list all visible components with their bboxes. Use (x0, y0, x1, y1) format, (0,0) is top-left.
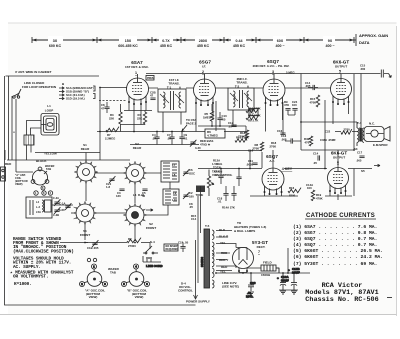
transformer T5 lead labels (219, 228, 229, 274)
tube V3 6SQ7 label (253, 59, 290, 74)
interlock box (164, 244, 179, 251)
wafer lug dots S2 rear (124, 162, 146, 184)
tube V6 6K6-GT (328, 168, 349, 195)
switch S4 on volume control (143, 240, 193, 293)
svg-text:1MEG: 1MEG (203, 116, 211, 120)
note to heaters (234, 221, 266, 233)
svg-text:5 MEG: 5 MEG (286, 71, 295, 75)
capacitor C8 47 (101, 102, 110, 113)
wire color labels (5, 152, 57, 167)
trimmer C2 (183, 191, 194, 199)
trimmer C2B (53, 207, 60, 217)
svg-text:BLK: BLK (219, 228, 226, 232)
wire plate feed vertical x361 (360, 74, 362, 128)
switch wafer S1 front (73, 201, 97, 225)
svg-text:455 KC: 455 KC (233, 44, 246, 48)
coil A bottom view (80, 264, 108, 287)
svg-text:(3) 6SQ7 . . . . . . . 0.7 M: (3) 6SQ7 . . . . . . . 0.7 MA. (293, 236, 377, 242)
tube V4 6SQ7 (262, 168, 284, 195)
stray lugs above coil A (87, 258, 96, 261)
svg-text:VIEW): VIEW) (15, 182, 23, 186)
switch wafer S1 rear label (81, 143, 90, 151)
wire right mid rail (301, 149, 354, 151)
svg-text:LOOP: LOOP (45, 109, 54, 113)
wire coil box link (169, 182, 171, 189)
wire S1 front down (84, 222, 86, 240)
svg-text:(2) 6SG7 . . . . . . . 9.8 M: (2) 6SG7 . . . . . . . 9.8 MA. (293, 230, 377, 236)
svg-text:280X: 280X (199, 39, 208, 43)
coil box L7 L8 (161, 161, 179, 182)
note wafer tab upper (44, 164, 54, 174)
wire key lead (272, 150, 274, 168)
svg-text:22K: 22K (109, 117, 114, 121)
wire v x262 (261, 152, 263, 168)
wire 5Y3 cathode to field (247, 268, 279, 273)
svg-text:CONTROL: CONTROL (178, 289, 193, 293)
svg-text:30MF: 30MF (281, 279, 289, 283)
cap C36A (320, 138, 336, 142)
svg-text:1.0: 1.0 (250, 112, 254, 116)
svg-text:2.2MEG: 2.2MEG (105, 137, 115, 141)
resistor R16 8200 (288, 186, 301, 198)
svg-text:600 KC: 600 KC (49, 44, 62, 48)
svg-text:.05: .05 (152, 137, 156, 141)
wire black lead (7, 159, 130, 161)
wire volume section left edge (200, 186, 202, 233)
coil box1 inner col2 (172, 164, 177, 179)
resistor R10 zigzag (235, 139, 247, 142)
svg-text:130: 130 (116, 194, 121, 198)
wire 5Y3 leads (239, 272, 247, 275)
svg-text:.05: .05 (228, 125, 232, 129)
tube V2 6SG7 (194, 74, 216, 106)
wire top B+ rail (146, 70, 391, 78)
svg-text:L5A: L5A (36, 210, 41, 214)
approx gain data note (345, 33, 388, 46)
label R15 C14 (191, 214, 197, 221)
svg-text:9X: 9X (328, 39, 333, 43)
coil A bottom view label (85, 288, 106, 299)
svg-text:47K: 47K (284, 103, 289, 107)
svg-text:.005: .005 (356, 159, 362, 163)
wire wafer row links (94, 173, 126, 213)
wire mid rail (130, 144, 199, 146)
wire tube5 bottom leads (333, 103, 349, 124)
wire tube1 bottom leads (121, 103, 153, 132)
switch wafer S2 front (123, 203, 147, 227)
svg-text:(7) 5Y3GT . . . . . . . 69 MA: (7) 5Y3GT . . . . . . . 69 MA. (293, 261, 377, 267)
svg-text:0.44: 0.44 (236, 39, 243, 43)
svg-text:8200: 8200 (289, 194, 296, 198)
arrow phono (374, 164, 380, 166)
svg-text:470Ω ★: 470Ω ★ (200, 143, 211, 147)
resistor R19 470K (306, 183, 323, 201)
coil box2 inner col2 (173, 192, 177, 201)
svg-text:& DIAL LAMPS: & DIAL LAMPS (234, 229, 255, 233)
capacitor C2A padder (178, 241, 189, 253)
svg-text:1: 1 (135, 71, 137, 75)
svg-text:.05: .05 (189, 205, 193, 209)
svg-text:1-8: 1-8 (106, 185, 110, 189)
svg-text:C-1A: C-1A (59, 202, 66, 206)
transformer T5 power (200, 229, 214, 288)
svg-text:RED-Y: RED-Y (219, 258, 228, 262)
wire transformer secondary leads (216, 231, 247, 271)
wire inverter rails (198, 104, 283, 140)
svg-text:+: + (277, 276, 279, 280)
transformer T4 output (357, 122, 364, 146)
svg-text:LINE CORD: LINE CORD (146, 264, 163, 268)
svg-text:600-455 KC: 600-455 KC (118, 44, 138, 48)
wire wafer3 to trimmer (71, 212, 74, 214)
svg-text:3-30: 3-30 (195, 146, 201, 150)
legend range switch positions (59, 82, 95, 101)
capacitor C18B (288, 267, 301, 290)
capacitor C13 (281, 134, 301, 144)
svg-text:FOR LOOP OPERATION: FOR LOOP OPERATION (22, 85, 56, 89)
wire lower pins rail (250, 195, 352, 197)
resistor R10 270K (236, 136, 249, 140)
resistor R2 27000 (127, 237, 141, 248)
coil L6 R24 (133, 193, 145, 197)
transformer T2 2nd IF label (235, 77, 250, 89)
variable capacitor C1B (87, 240, 99, 250)
svg-text:R14A 27K: R14A 27K (222, 206, 235, 210)
svg-text:.05: .05 (215, 173, 219, 177)
svg-text:TAB: TAB (110, 271, 117, 275)
tube V1 6SA7 (127, 74, 149, 105)
wafer lug dots S1 rear (75, 161, 97, 183)
resistor R3 22K (109, 104, 122, 132)
resistor R7 2.2MEG (105, 127, 119, 141)
coil box L9 L10 (163, 189, 179, 205)
svg-text:(1) 6SA7 . . . . . . . 7.6 M: (1) 6SA7 . . . . . . . 7.6 MA. (293, 224, 377, 230)
svg-text:C17: C17 (357, 151, 363, 155)
note to s2a (186, 118, 196, 126)
svg-text:.01: .01 (184, 137, 188, 141)
svg-text:PAGE 2: PAGE 2 (186, 122, 196, 126)
capacitor C15 label (360, 64, 366, 72)
svg-text:R2: R2 (128, 237, 132, 241)
capacitor C12 (228, 121, 237, 129)
wire gang link dashed (99, 100, 127, 102)
svg-text:RECT.: RECT. (257, 245, 266, 249)
svg-text:270K: 270K (270, 144, 277, 148)
transformer T1 1st IF label (167, 78, 182, 90)
wire T2 bottom leads (233, 110, 249, 126)
resistor R8 270K (253, 142, 264, 151)
link switch contacts (13, 93, 20, 98)
svg-text:C-2B: C-2B (53, 213, 59, 217)
coil B bottom view label (127, 288, 148, 299)
detail sub-box (45, 200, 52, 212)
trimmer C2A (53, 196, 60, 206)
resistor box R6 (205, 129, 225, 138)
capacitor C4 (152, 132, 160, 145)
svg-text:(5) 6K6GT . . . . . . . 26.5 M: (5) 6K6GT . . . . . . . 26.5 MA. (293, 248, 383, 254)
ant coil pin 6 (41, 186, 45, 190)
svg-text:I.F.: I.F. (202, 65, 206, 69)
resistor R4 22K (137, 111, 147, 125)
svg-text:2ND DET. A.V.C. - PH. INV.: 2ND DET. A.V.C. - PH. INV. (253, 64, 290, 68)
svg-text:100: 100 (307, 186, 312, 190)
trimmer C21 (106, 176, 115, 189)
resistor R17 2700 (335, 127, 357, 134)
capacitor C14b (305, 81, 318, 90)
wire tube6 down (337, 194, 339, 200)
svg-text:27000: 27000 (128, 244, 136, 248)
svg-text:L1: L1 (47, 104, 51, 108)
volume control R12A (196, 159, 237, 210)
svg-text:N.C.: N.C. (369, 122, 375, 126)
switch wafer S1 rear (74, 160, 98, 184)
svg-text:400 ~: 400 ~ (275, 44, 284, 48)
capacitor C9 (179, 132, 187, 145)
wire B+ bus (216, 272, 310, 274)
transformer T2 2nd IF (228, 88, 254, 110)
svg-text:3' ANT. WIRE IN CABINET: 3' ANT. WIRE IN CABINET (15, 70, 52, 74)
svg-text:L6: L6 (133, 193, 137, 197)
svg-text:180: 180 (189, 195, 194, 199)
svg-text:MFD.: MFD. (246, 295, 253, 299)
svg-text:T-5: T-5 (205, 224, 210, 228)
coil B bottom view (122, 264, 150, 287)
svg-text:REAR: REAR (133, 146, 142, 150)
svg-text:.05: .05 (313, 161, 317, 165)
capacitor C5 56 (142, 189, 148, 198)
wire antenna (5, 76, 99, 160)
wire T1 bottom leads (163, 112, 181, 132)
svg-text:60X: 60X (277, 39, 284, 43)
gain scale arrowheads (33, 39, 353, 41)
cathode currents table title (305, 213, 376, 219)
svg-text:.05: .05 (222, 118, 226, 122)
switch wafer S2 front label (146, 222, 156, 230)
svg-text:2700: 2700 (344, 127, 351, 131)
coil L2 box (24, 135, 34, 145)
svg-text:(6) 6K6GT . . . . . . . 24.2 M: (6) 6K6GT . . . . . . . 24.2 MA. (293, 254, 383, 260)
tube V5 6K6-GT label (333, 60, 350, 74)
svg-text:(MAX.CLOCKWISE POSITION): (MAX.CLOCKWISE POSITION) (13, 249, 74, 254)
capacitor C16 (277, 129, 286, 135)
capacitor C18A (277, 273, 290, 290)
svg-text:C14: C14 (191, 217, 197, 221)
wire field feed (252, 268, 279, 273)
note line cord (222, 281, 239, 289)
wire ground bus caps (279, 289, 298, 291)
arrow into coil box (146, 209, 153, 211)
wire tube6 bottom leads (330, 192, 346, 196)
svg-text:300: 300 (361, 67, 366, 71)
wire output top rail (301, 121, 357, 123)
svg-text:470K: 470K (316, 197, 323, 201)
wire v x250 (249, 150, 251, 168)
wire v tube2 cathode (215, 101, 217, 131)
svg-text:C14: C14 (313, 152, 319, 156)
capacitor C11 (246, 159, 258, 167)
wire wafer connectors (86, 153, 168, 242)
svg-text:L-3: L-3 (36, 205, 40, 209)
svg-text:400 ~: 400 ~ (325, 44, 334, 48)
svg-text:TAB: TAB (46, 167, 51, 171)
svg-text:C-2A: C-2A (53, 196, 59, 200)
svg-text:REQUIRED: REQUIRED (166, 248, 179, 251)
svg-text:E.M.SPKR: E.M.SPKR (373, 143, 388, 147)
svg-text:.01: .01 (218, 200, 222, 204)
wafer lug dots S2 front (124, 204, 146, 226)
ant coil bottom view (15, 167, 49, 186)
cap C22 (325, 130, 331, 134)
speaker (364, 127, 390, 142)
svg-text:C16: C16 (248, 149, 254, 153)
press terminal box (146, 76, 154, 81)
svg-text:470K: 470K (310, 101, 317, 105)
svg-text:455 KC: 455 KC (160, 44, 173, 48)
wire tube4 bottom leads (265, 193, 282, 196)
svg-text:A.F.: A.F. (269, 159, 275, 163)
svg-text:C36A .05MF: C36A .05MF (320, 138, 336, 142)
svg-text:OUTPUT: OUTPUT (333, 156, 346, 160)
capacitor C17 (356, 151, 365, 163)
switch S3 (354, 147, 358, 151)
svg-text:936560: 936560 (200, 257, 204, 267)
svg-text:20MF: 20MF (292, 271, 300, 275)
label S5 (361, 169, 365, 173)
label R8 2.7K (248, 119, 258, 123)
svg-text:OSC: OSC (189, 172, 195, 176)
box C25 (249, 109, 258, 116)
loop antenna L1 (41, 114, 59, 136)
wire v x354 (353, 74, 355, 150)
wire left col vertical (99, 88, 101, 161)
wire lower tube rail (198, 168, 372, 170)
switch wafer S2 rear (123, 161, 147, 185)
capacitor C24b (236, 169, 241, 187)
svg-text:5: 5 (339, 70, 341, 74)
svg-text:5-60: 5-60 (59, 208, 65, 212)
svg-text:1ST DET. & OSC.: 1ST DET. & OSC. (125, 65, 149, 69)
svg-text:OUTPUT: OUTPUT (335, 65, 348, 69)
wire S2 link vertical (134, 182, 136, 203)
capacitor C7 (167, 132, 175, 145)
svg-text:4 KEY: 4 KEY (282, 167, 293, 171)
svg-text:FRONT: FRONT (146, 226, 156, 230)
arrow to page (182, 125, 187, 131)
labels under tube3 (284, 100, 298, 115)
tube V7 5Y3-GT label (252, 240, 268, 254)
stray dash (387, 297, 392, 299)
svg-text:CATHODE CURRENTS: CATHODE CURRENTS (306, 213, 375, 219)
wire tube3 bottom leads (266, 104, 283, 132)
note link closed (17, 81, 56, 97)
wire S1 link vertical (85, 181, 87, 201)
svg-text:0.7X: 0.7X (162, 39, 170, 43)
wire AVC bus (97, 131, 246, 133)
svg-text:K=1000.: K=1000. (14, 282, 32, 287)
trimmer C6 (183, 168, 195, 176)
wire plate row segments (100, 87, 331, 90)
svg-text:C1B: C1B (87, 246, 93, 250)
capacitor C10 (217, 112, 227, 126)
svg-text:15X: 15X (125, 39, 132, 43)
tube V7 5Y3-GT (233, 248, 254, 273)
capacitor C3 130 (116, 189, 125, 198)
svg-text:YEL: YEL (220, 241, 226, 245)
resistor R4B 470 (304, 136, 313, 146)
svg-text:270K: 270K (253, 147, 260, 151)
tube V1 6SA7 label (125, 60, 149, 75)
label 5 MEG (286, 71, 295, 75)
variable capacitor C1A (59, 202, 71, 213)
resistor R15 470K (310, 95, 320, 107)
transformer T1 1st IF (158, 89, 186, 112)
tube V2 6SG7 label (199, 60, 211, 75)
svg-text:PRES: PRES (147, 77, 154, 80)
loop antenna L1 label (45, 104, 54, 113)
label R18 270K (270, 141, 277, 148)
wire yellow lead (35, 152, 100, 154)
svg-text:R-24: R-24 (138, 193, 145, 197)
svg-text:470: 470 (305, 141, 310, 145)
svg-text:APPROX. GAIN: APPROX. GAIN (359, 33, 388, 38)
ground C20 (248, 292, 254, 295)
svg-text:1560Ω: 1560Ω (261, 273, 271, 277)
svg-text:.0039: .0039 (246, 163, 253, 167)
switch wafer S1 front label (80, 229, 90, 237)
svg-text:R8: R8 (248, 119, 252, 123)
gain scale line (32, 36, 354, 43)
wire v x198 power left (197, 196, 199, 283)
resistor R18 (238, 130, 249, 139)
svg-text:455 KC: 455 KC (197, 44, 210, 48)
capacitor C2B 47 (150, 91, 156, 100)
wire detail link (52, 204, 73, 206)
wire loop leads (27, 121, 47, 136)
svg-text:C16: C16 (277, 129, 283, 133)
svg-text:DATA: DATA (359, 40, 370, 45)
svg-text:R16: R16 (289, 186, 295, 190)
svg-text:OR VOLTOHMYST.: OR VOLTOHMYST. (13, 275, 49, 280)
resistor R5 1MEG (203, 104, 214, 126)
svg-text:47: 47 (101, 107, 105, 111)
svg-text:TONE: TONE (196, 193, 204, 197)
ground C18A (280, 291, 297, 294)
svg-text:VIEW): VIEW) (135, 295, 144, 299)
wire bottom vertical x354 (353, 169, 355, 197)
gain labels (49, 39, 335, 48)
tube V4 6SQ7 label (266, 154, 293, 171)
svg-text:S5: S5 (361, 169, 365, 173)
transformer T4 output label (357, 121, 375, 126)
wire bottom switch rail (85, 243, 150, 250)
antenna coil detail box (26, 191, 53, 218)
svg-text:FIELD: FIELD (263, 261, 272, 265)
note range switch (13, 237, 74, 255)
svg-text:(SEE NOTE): (SEE NOTE) (222, 285, 239, 289)
svg-text:AC. SUPPLY.: AC. SUPPLY. (13, 265, 41, 270)
wire left border antenna return (5, 76, 196, 305)
wire tube2 bottom leads (196, 104, 213, 132)
tube V6 6K6-GT label (331, 151, 348, 165)
wafer lug dots S1 front (74, 202, 96, 224)
switch wafer S2 rear label (133, 142, 142, 150)
capacitor C14 (313, 152, 320, 166)
wire ant lead to coil (9, 76, 34, 172)
svg-text:.05: .05 (167, 137, 171, 141)
tube V5 6K6-GT (331, 74, 352, 105)
wire bottom right vertical (396, 26, 398, 316)
note measured (10, 271, 74, 288)
